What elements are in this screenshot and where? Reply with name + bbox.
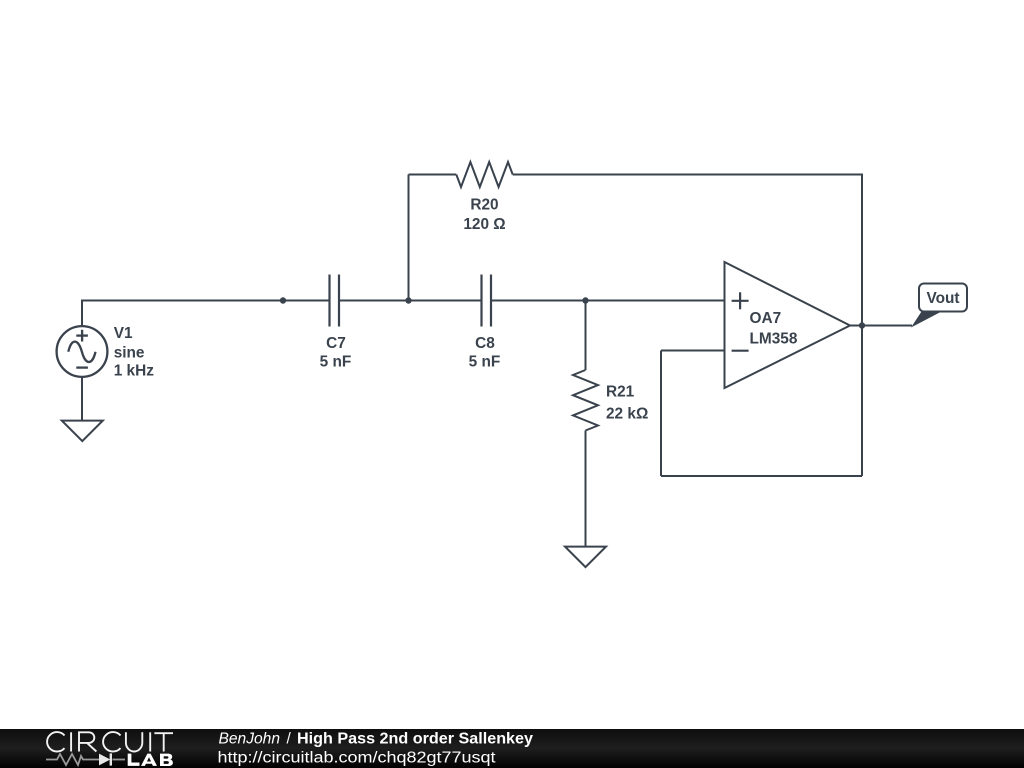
wire R20 right lead to output column (513, 175, 862, 326)
wire feedback bottom (661, 475, 862, 477)
wire V1 top to node A (82, 301, 283, 327)
wire R20 left lead (409, 174, 457, 176)
wire to op-amp - input (661, 350, 725, 352)
ground below R21 (565, 547, 606, 568)
ground below V1 (62, 421, 103, 442)
wire node C down to R21 (585, 301, 587, 371)
svg-text:V1: V1 (114, 325, 133, 342)
logo resistor-diode squiggle (46, 754, 125, 765)
svg-text:1 kHz: 1 kHz (114, 363, 155, 380)
wire R21 to ground (585, 431, 587, 547)
capacitor C8 (482, 275, 492, 327)
svg-text:LM358: LM358 (750, 331, 798, 348)
svg-text:sine: sine (114, 345, 145, 362)
resistor R20 (456, 162, 512, 187)
svg-text:C8: C8 (475, 335, 495, 352)
wire C8 to node C (491, 300, 586, 302)
wire feedback up (660, 351, 662, 477)
footer bar (0, 729, 1024, 768)
node D (output) (859, 322, 865, 328)
svg-text:http://circuitlab.com/chq82gt7: http://circuitlab.com/chq82gt77usqt (218, 750, 497, 767)
wire node C to op-amp + input (586, 300, 725, 302)
svg-text:BenJohn: BenJohn (219, 730, 281, 747)
Vout flag box (919, 284, 967, 312)
svg-text:R20: R20 (470, 197, 498, 214)
svg-text:/: / (287, 730, 292, 747)
logo CIRCUIT wordmark (47, 732, 173, 751)
svg-text:High Pass 2nd order Sallenkey: High Pass 2nd order Sallenkey (297, 730, 533, 747)
op-amp + input marker (732, 292, 749, 309)
op-amp - input marker (732, 350, 749, 352)
svg-text:OA7: OA7 (750, 310, 782, 327)
logo diode triangle (99, 754, 110, 766)
svg-text:R21: R21 (606, 384, 635, 401)
voltage source V1 (57, 326, 108, 377)
wire node A to C7 (283, 300, 329, 302)
wire V1 bottom to ground (81, 377, 83, 421)
logo diode bar (110, 753, 112, 765)
svg-text:C7: C7 (326, 335, 346, 352)
svg-text:120 Ω: 120 Ω (463, 216, 505, 233)
Vout flag tail (911, 312, 942, 328)
resistor R21 (573, 370, 598, 431)
node C (582, 297, 588, 303)
wire op-amp output to Vout flag (850, 325, 912, 327)
wire node B up to R20 (408, 175, 410, 301)
op-amp OA7 body (725, 262, 851, 388)
svg-text:5 nF: 5 nF (320, 354, 352, 371)
logo LAB (128, 754, 173, 766)
wire output node down (861, 326, 863, 477)
node B (405, 297, 411, 303)
svg-text:22 kΩ: 22 kΩ (606, 406, 648, 423)
wire node B to C8 (409, 300, 482, 302)
svg-text:Vout: Vout (926, 290, 959, 307)
wire C7 to node B (340, 300, 409, 302)
capacitor C7 (330, 275, 340, 327)
svg-text:5 nF: 5 nF (469, 354, 501, 371)
node A (280, 297, 286, 303)
